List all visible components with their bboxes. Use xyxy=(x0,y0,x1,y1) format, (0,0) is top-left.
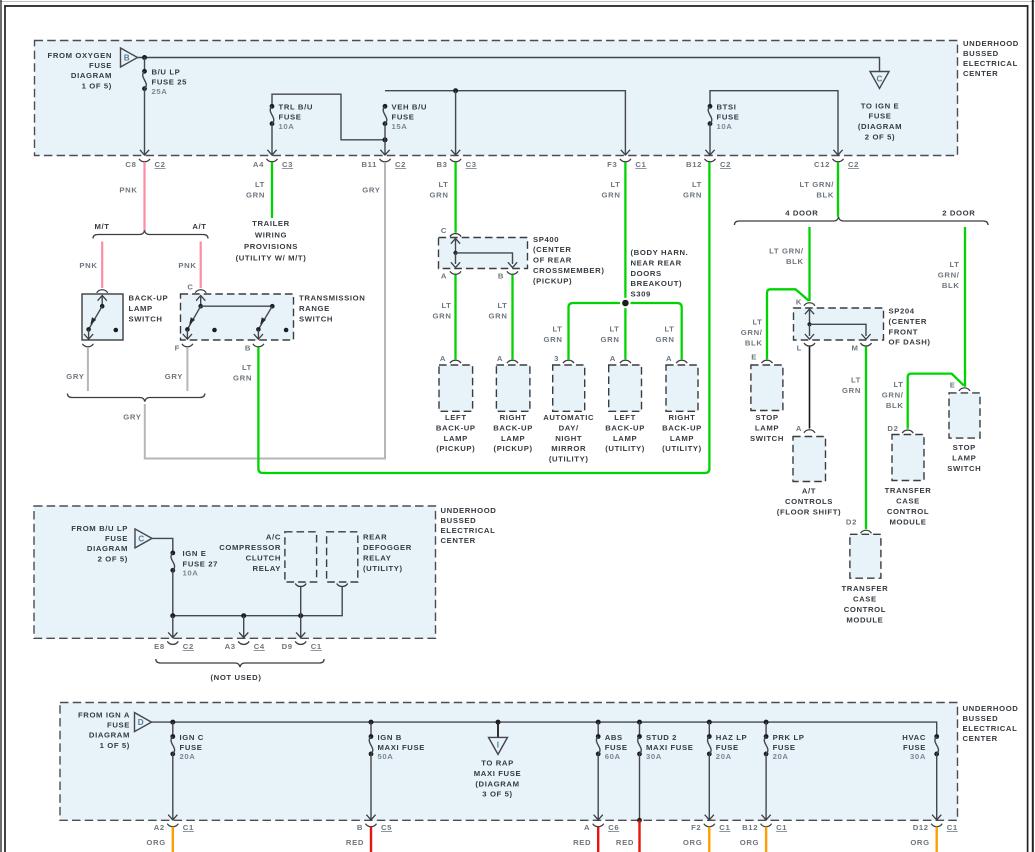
svg-text:FUSE: FUSE xyxy=(279,113,302,122)
svg-text:B11: B11 xyxy=(361,160,377,169)
svg-text:RIGHT: RIGHT xyxy=(500,413,527,422)
svg-text:RANGE: RANGE xyxy=(299,304,330,313)
back-up switch lower terminal xyxy=(88,329,90,339)
svg-text:NIGHT: NIGHT xyxy=(555,434,582,443)
svg-text:LAMP: LAMP xyxy=(670,434,694,443)
svg-text:FUSE 25: FUSE 25 xyxy=(152,78,188,87)
svg-text:ELECTRICAL: ELECTRICAL xyxy=(963,59,1018,68)
label LT GRN (SP400 B) xyxy=(489,301,508,321)
junction node VEH fuse output xyxy=(383,137,388,142)
terminal below a/c relay xyxy=(295,584,306,587)
svg-text:BUSSED: BUSSED xyxy=(963,714,999,723)
svg-text:MODULE: MODULE xyxy=(889,518,926,527)
wire LT GRN from A4 xyxy=(271,162,273,218)
wire bus to connector D9 xyxy=(300,616,302,638)
svg-text:BREAKOUT): BREAKOUT) xyxy=(631,279,683,288)
label TRANSFER CASE CONTROL MODULE (right) xyxy=(885,486,932,527)
svg-text:PROVISIONS: PROVISIONS xyxy=(244,242,298,251)
junction node D9 xyxy=(298,613,303,618)
connector C8/C2 arrow xyxy=(140,150,149,155)
svg-text:B: B xyxy=(357,823,363,832)
svg-text:FUSE: FUSE xyxy=(716,743,739,752)
svg-text:CONTROL: CONTROL xyxy=(887,507,929,516)
terminal A below SP400 xyxy=(450,271,461,274)
wire GRY from back-up switch xyxy=(87,347,89,391)
label UNDERHOOD BUSSED ELECTRICAL CENTER (box 3) xyxy=(963,704,1019,743)
connector A4/C3 arrow xyxy=(267,150,276,155)
svg-text:LT: LT xyxy=(610,180,620,189)
svg-text:(UTILITY): (UTILITY) xyxy=(662,444,702,453)
svg-text:(PICKUP): (PICKUP) xyxy=(494,444,533,453)
label UNDERHOOD BUSSED ELECTRICAL CENTER (box 2) xyxy=(441,506,497,545)
junction node at fuse 25 xyxy=(142,55,147,60)
svg-text:PRK LP: PRK LP xyxy=(773,733,805,742)
svg-text:B12: B12 xyxy=(742,823,758,832)
terminal E at left stop lamp switch xyxy=(762,360,773,363)
svg-text:OF DASH): OF DASH) xyxy=(889,338,931,347)
svg-text:TRANSMISSION: TRANSMISSION xyxy=(299,294,365,303)
svg-text:E: E xyxy=(751,353,757,362)
junction node bus3 #6 xyxy=(707,720,712,725)
bus wire box2 xyxy=(173,587,342,616)
svg-text:GRN: GRN xyxy=(246,191,265,200)
wire LT GRN from F3 through S309 xyxy=(624,162,626,359)
svg-text:C8: C8 xyxy=(125,160,136,169)
svg-text:2 DOOR: 2 DOOR xyxy=(942,209,975,218)
A/T controls (floor shift) box xyxy=(793,437,826,482)
svg-text:RELAY: RELAY xyxy=(253,564,281,573)
wire LT GRN/BLK 2-door branch xyxy=(964,227,966,387)
svg-text:C: C xyxy=(441,226,447,235)
svg-text:BUSSED: BUSSED xyxy=(963,49,999,58)
svg-text:BTSI: BTSI xyxy=(717,103,737,112)
svg-text:A: A xyxy=(441,272,447,281)
TRS contact node 1 xyxy=(212,328,217,333)
svg-text:LT: LT xyxy=(949,260,959,269)
svg-text:ELECTRICAL: ELECTRICAL xyxy=(441,526,496,535)
svg-text:F: F xyxy=(175,344,180,353)
wire LT GRN from B3 to SP400 xyxy=(454,162,456,233)
page border next-page xyxy=(1032,0,1034,852)
TRS lower terminal B xyxy=(257,329,259,339)
wire LT GRN SP400-A to left backup lamp xyxy=(454,275,456,360)
TRS blade 1 xyxy=(187,306,200,329)
label automatic day/night mirror (utility) xyxy=(543,413,594,464)
svg-text:TO RAP: TO RAP xyxy=(481,759,514,768)
fuse HAZ LP FUSE 20A xyxy=(707,734,712,756)
connector B11/C2 terminal xyxy=(380,159,391,162)
svg-text:MAXI FUSE: MAXI FUSE xyxy=(378,743,425,752)
label BACK-UP LAMP SWITCH xyxy=(129,294,169,324)
terminal L below SP204 xyxy=(804,343,815,346)
label (BODY HARN. NEAR REAR DOORS BREAKOUT) S309 xyxy=(631,248,689,299)
fuse TRL B/U FUSE 10A xyxy=(270,104,275,126)
wire RED from B xyxy=(370,827,372,852)
label LT GRN/BLK (right TCCM) xyxy=(882,380,904,410)
svg-text:COMPRESSOR: COMPRESSOR xyxy=(219,543,281,552)
svg-text:GRY: GRY xyxy=(66,372,84,381)
connector A4/C3 terminal xyxy=(267,159,278,162)
label PRK LP FUSE 20A xyxy=(773,733,805,761)
wire tap to connector B3 xyxy=(455,91,457,155)
label LT GRN/BLK (stop lamp feed) xyxy=(741,318,763,348)
svg-text:ABS: ABS xyxy=(605,733,623,742)
underhood bussed electrical center box 2 xyxy=(34,506,436,638)
underhood bussed electrical center box 1 xyxy=(35,41,958,156)
terminal 3 at automatic day/night mirror (utility) xyxy=(563,360,574,363)
svg-text:SWITCH: SWITCH xyxy=(299,315,333,324)
svg-text:2 OF 5): 2 OF 5) xyxy=(865,133,895,142)
back-up switch pivot node xyxy=(100,304,105,309)
wire LT GRN/BLK from C12 xyxy=(837,162,839,217)
label LT GRN (B3) xyxy=(430,180,449,200)
svg-text:BACK-UP: BACK-UP xyxy=(662,423,702,432)
svg-text:C: C xyxy=(138,535,144,544)
TRS lower terminal F xyxy=(186,329,188,339)
svg-text:GRN: GRN xyxy=(842,386,861,395)
svg-text:LT: LT xyxy=(752,318,762,327)
svg-text:(FLOOR SHIFT): (FLOOR SHIFT) xyxy=(777,508,841,517)
wire LT GRN/BLK 4-door branch to K xyxy=(808,227,810,301)
svg-text:LT: LT xyxy=(497,301,507,310)
svg-text:(PICKUP): (PICKUP) xyxy=(533,276,572,285)
svg-text:FUSE: FUSE xyxy=(869,112,892,121)
label TO IGN E FUSE (DIAGRAM 2 OF 5) xyxy=(858,101,902,141)
svg-text:2 OF 5): 2 OF 5) xyxy=(98,554,128,563)
svg-text:UNDERHOOD: UNDERHOOD xyxy=(963,704,1019,713)
brace NOT USED xyxy=(156,659,324,667)
svg-text:MODULE: MODULE xyxy=(846,616,883,625)
terminal C at transmission range switch xyxy=(195,290,206,293)
svg-text:BACK-UP: BACK-UP xyxy=(129,294,169,303)
connector C12/C2 terminal xyxy=(833,159,844,162)
svg-text:1 OF 5): 1 OF 5) xyxy=(82,81,112,90)
svg-text:(UTILITY): (UTILITY) xyxy=(549,455,589,464)
label right back-up lamp (utility) xyxy=(662,413,702,453)
svg-text:NEAR REAR: NEAR REAR xyxy=(631,258,682,267)
label LT GRN (left utility) xyxy=(601,325,620,345)
page border right xyxy=(1027,5,1029,852)
svg-text:LAMP: LAMP xyxy=(501,434,525,443)
svg-text:E: E xyxy=(950,381,956,390)
brace GRY merge xyxy=(67,394,204,402)
connector A3/C4 terminal xyxy=(238,641,249,644)
wire fuse IGN B MAXI FUSE 50A to output xyxy=(370,754,372,820)
label HVAC FUSE 30A xyxy=(902,733,926,761)
svg-text:GRY: GRY xyxy=(165,372,183,381)
svg-text:SWITCH: SWITCH xyxy=(947,464,981,473)
svg-text:TRANSFER: TRANSFER xyxy=(841,584,888,593)
svg-text:DIAGRAM: DIAGRAM xyxy=(89,731,130,740)
svg-text:LT: LT xyxy=(255,180,265,189)
svg-text:F2: F2 xyxy=(691,823,701,832)
off-page connector triangle C (box 2) xyxy=(135,529,152,548)
svg-text:L: L xyxy=(797,344,802,353)
svg-text:CROSSMEMBER): CROSSMEMBER) xyxy=(533,266,605,275)
svg-text:E8: E8 xyxy=(154,642,165,651)
fuse ABS FUSE 60A xyxy=(596,734,601,756)
splice node S309 xyxy=(620,298,631,309)
svg-text:A: A xyxy=(497,354,503,363)
SP204 branch wire xyxy=(810,324,867,336)
wire bus to fuse ABS FUSE 60A xyxy=(597,722,599,736)
label LT GRN (mirror) xyxy=(544,325,563,345)
component right back-up lamp (pickup) box xyxy=(496,365,530,411)
svg-text:A: A xyxy=(440,354,446,363)
svg-text:SWITCH: SWITCH xyxy=(750,434,784,443)
wire ORG from A2 xyxy=(172,827,174,852)
svg-text:IGN B: IGN B xyxy=(378,733,402,742)
wire LT GRN/BLK branch to right TCCM xyxy=(908,374,964,429)
label ABS FUSE 60A xyxy=(605,733,628,761)
svg-text:LT: LT xyxy=(893,380,903,389)
svg-text:GRN: GRN xyxy=(489,312,508,321)
left stop lamp switch box xyxy=(751,365,783,411)
label TRANSMISSION RANGE SWITCH xyxy=(299,294,365,324)
svg-text:F3: F3 xyxy=(607,160,617,169)
bottom transfer case control module box xyxy=(850,534,881,578)
fuse VEH B/U FUSE 15A xyxy=(383,104,388,126)
wire BTSI branch xyxy=(710,91,838,155)
svg-text:DAY/: DAY/ xyxy=(559,423,579,432)
component right back-up lamp (utility) box xyxy=(666,365,698,411)
svg-text:OF REAR: OF REAR xyxy=(533,256,572,265)
svg-text:BACK-UP: BACK-UP xyxy=(493,423,533,432)
terminal M below SP204 xyxy=(861,343,872,346)
wire bus to fuse IGN C FUSE 20A xyxy=(172,722,174,736)
terminal E at right stop lamp switch xyxy=(959,388,970,391)
svg-text:C1: C1 xyxy=(311,642,322,651)
junction node bus3 #5 xyxy=(637,720,642,725)
terminal F below TRS xyxy=(182,344,193,347)
SP400 branch wire xyxy=(456,253,513,264)
fuse BTSI FUSE 10A xyxy=(708,104,713,126)
svg-text:GRN/: GRN/ xyxy=(741,328,763,337)
TRS blade 1 lower node xyxy=(185,327,190,332)
svg-text:LT: LT xyxy=(438,180,448,189)
svg-text:B: B xyxy=(498,272,504,281)
page top hairline xyxy=(0,1,1035,3)
splice node STUD 2 output xyxy=(637,818,642,823)
svg-text:BLK: BLK xyxy=(786,257,804,266)
svg-text:3: 3 xyxy=(554,354,559,363)
svg-text:ORG: ORG xyxy=(740,838,759,847)
svg-text:A: A xyxy=(666,354,672,363)
svg-text:FRONT: FRONT xyxy=(889,327,919,336)
svg-text:50A: 50A xyxy=(378,752,394,761)
connector C8/C2 terminal xyxy=(139,159,150,162)
TRS blade 2 xyxy=(258,306,272,329)
terminal below rear defogger relay xyxy=(337,584,348,587)
svg-text:CONTROL: CONTROL xyxy=(844,605,886,614)
wire PNK from C8 xyxy=(143,162,145,231)
wire A/C relay to bus xyxy=(300,587,302,616)
svg-text:C1: C1 xyxy=(183,823,194,832)
svg-text:S309: S309 xyxy=(631,290,651,299)
wire LT GRN S309 branches xyxy=(569,303,682,359)
svg-text:TRANSFER: TRANSFER xyxy=(885,486,932,495)
label BTSI FUSE 10A xyxy=(717,103,740,131)
svg-text:(UTILITY): (UTILITY) xyxy=(605,444,645,453)
svg-text:GRY: GRY xyxy=(123,413,141,422)
connector E8/C2 terminal xyxy=(167,641,178,644)
fuse PRK LP FUSE 20A xyxy=(764,734,769,756)
svg-text:FUSE: FUSE xyxy=(392,113,415,122)
terminal A at left back-up lamp (utility) xyxy=(620,360,631,363)
svg-text:FROM OXYGEN: FROM OXYGEN xyxy=(48,51,112,60)
terminal below back-up switch xyxy=(82,344,93,347)
svg-text:TRAILER: TRAILER xyxy=(252,219,290,228)
label TRAILER WIRING PROVISIONS (UTILITY W/ M/T) xyxy=(236,219,307,263)
svg-text:I: I xyxy=(497,740,499,749)
svg-text:60A: 60A xyxy=(605,752,621,761)
connector C12/C2 arrow xyxy=(833,150,842,155)
svg-text:FUSE: FUSE xyxy=(717,113,740,122)
svg-text:FUSE 27: FUSE 27 xyxy=(183,559,219,568)
svg-text:RED: RED xyxy=(616,838,634,847)
fuse IGN B MAXI FUSE 50A xyxy=(369,734,374,756)
svg-text:1 OF 5): 1 OF 5) xyxy=(100,741,130,750)
wire bus to fuse HAZ LP FUSE 20A xyxy=(708,722,710,736)
svg-text:(UTILITY): (UTILITY) xyxy=(363,564,403,573)
label LT GRN (SP400 A) xyxy=(433,301,452,321)
wire LT GRN SP400-B to right backup lamp xyxy=(511,275,513,360)
connector A2/C1 arrow xyxy=(168,815,177,820)
svg-text:REAR: REAR xyxy=(363,533,387,542)
svg-text:GRN: GRN xyxy=(544,335,563,344)
component automatic day/night mirror (utility) box xyxy=(553,365,585,411)
splice SP204 box xyxy=(794,308,884,340)
svg-text:CENTER: CENTER xyxy=(963,734,998,743)
svg-text:D12: D12 xyxy=(913,823,929,832)
svg-text:(BODY HARN.: (BODY HARN. xyxy=(631,248,689,257)
page border outer-left xyxy=(0,0,2,852)
svg-text:DOORS: DOORS xyxy=(631,269,662,278)
svg-text:GRN/: GRN/ xyxy=(882,391,904,400)
wire bus2 from VEH fuse top xyxy=(385,91,625,155)
terminal C at SP400 xyxy=(450,234,461,237)
svg-text:LT: LT xyxy=(242,363,252,372)
bus wire box3 xyxy=(152,722,937,736)
svg-text:RELAY: RELAY xyxy=(363,554,391,563)
terminal A at right back-up lamp (utility) xyxy=(676,360,687,363)
svg-text:CASE: CASE xyxy=(896,497,920,506)
label A/T CONTROLS (FLOOR SHIFT) xyxy=(777,487,841,517)
svg-text:GRN: GRN xyxy=(602,191,621,200)
connector A2/C1 terminal xyxy=(167,824,178,827)
SP400 splice node xyxy=(453,251,457,255)
back-up switch upper terminal xyxy=(98,296,107,301)
label IGN C FUSE 20A xyxy=(180,733,204,761)
off-page connector triangle C to IGN E fuse xyxy=(870,72,889,89)
connector A3/C4 arrow xyxy=(239,632,248,637)
wire bus to fuse STUD 2 MAXI FUSE 30A xyxy=(639,722,641,736)
svg-text:WIRING: WIRING xyxy=(255,231,287,240)
svg-text:(PICKUP): (PICKUP) xyxy=(436,444,475,453)
svg-text:TRL B/U: TRL B/U xyxy=(279,103,314,112)
svg-text:A3: A3 xyxy=(225,642,236,651)
connector B/C5 terminal xyxy=(366,824,377,827)
svg-text:UNDERHOOD: UNDERHOOD xyxy=(441,506,497,515)
svg-text:BLK: BLK xyxy=(942,281,960,290)
back-up switch blade lower node xyxy=(86,327,91,332)
SP204 output M arrow xyxy=(861,334,870,339)
svg-text:FUSE: FUSE xyxy=(180,743,203,752)
svg-text:LT: LT xyxy=(441,301,451,310)
svg-text:M/T: M/T xyxy=(94,222,109,231)
svg-text:4 DOOR: 4 DOOR xyxy=(785,209,818,218)
svg-text:LT: LT xyxy=(851,376,861,385)
svg-text:C: C xyxy=(876,75,882,84)
component left back-up lamp (utility) box xyxy=(609,365,642,411)
junction node B3 tap xyxy=(453,88,458,93)
wire bus to B/U LP fuse xyxy=(144,58,146,72)
svg-text:LAMP: LAMP xyxy=(755,423,779,432)
svg-text:PNK: PNK xyxy=(119,186,137,195)
svg-text:TO IGN E: TO IGN E xyxy=(861,101,900,110)
svg-text:VEH B/U: VEH B/U xyxy=(392,103,428,112)
a/c compressor clutch relay box xyxy=(285,532,317,582)
wire fuse PRK LP FUSE 20A to output xyxy=(765,754,767,820)
TRS upper terminal C xyxy=(196,296,205,301)
label SP400 (CENTER OF REAR CROSSMEMBER) (PICKUP) xyxy=(533,235,605,286)
svg-text:HAZ LP: HAZ LP xyxy=(716,733,747,742)
label IGN E FUSE 27 10A xyxy=(183,549,219,577)
SP400 input arrow xyxy=(451,239,460,244)
svg-text:A/T: A/T xyxy=(192,222,206,231)
connector B12/C2 arrow xyxy=(705,150,714,155)
wire bus to fuse PRK LP FUSE 20A xyxy=(765,722,767,736)
svg-text:(CENTER: (CENTER xyxy=(889,317,928,326)
svg-text:STUD 2: STUD 2 xyxy=(646,733,677,742)
svg-text:D2: D2 xyxy=(846,518,857,527)
wire fuse HVAC FUSE 30A to output xyxy=(936,754,938,820)
svg-text:20A: 20A xyxy=(180,752,196,761)
fuse IGN C FUSE 20A xyxy=(170,734,175,756)
svg-text:LT: LT xyxy=(664,325,674,334)
wire fuse STUD 2 MAXI FUSE 30A to output xyxy=(639,754,641,820)
svg-text:LAMP: LAMP xyxy=(444,434,468,443)
connector F2/C1 arrow xyxy=(705,815,714,820)
junction node bus3 #2 xyxy=(369,720,374,725)
svg-text:D9: D9 xyxy=(282,642,293,651)
connector B3/C3 terminal xyxy=(450,159,461,162)
fuse HVAC FUSE 30A xyxy=(934,734,939,756)
off-page connector triangle B xyxy=(121,48,138,67)
brace M/T - A/T split xyxy=(93,230,208,238)
svg-text:B: B xyxy=(124,54,130,63)
svg-text:SP400: SP400 xyxy=(533,235,559,244)
label SP204 (CENTER FRONT OF DASH) xyxy=(889,307,931,347)
svg-text:B3: B3 xyxy=(437,160,448,169)
wire fuse ABS FUSE 60A to output xyxy=(597,754,599,820)
page border left xyxy=(4,5,6,852)
terminal A at A/T controls xyxy=(804,430,815,433)
TRS blade 2 lower node xyxy=(256,327,261,332)
svg-text:FUSE: FUSE xyxy=(105,534,128,543)
svg-text:BLK: BLK xyxy=(816,191,834,200)
wire bus to connector E8 xyxy=(172,616,174,638)
wire LT GRN TRS B to connector B12 xyxy=(258,162,709,473)
label left back-up lamp (pickup) xyxy=(436,413,476,453)
terminal B below SP400 xyxy=(507,271,518,274)
svg-text:C2: C2 xyxy=(155,160,166,169)
junction node bus3 #3 xyxy=(496,720,501,725)
SP400 output B arrow xyxy=(508,262,517,267)
svg-text:A: A xyxy=(796,424,802,433)
off-page connector triangle I to RAP maxi fuse xyxy=(489,737,508,754)
svg-text:RIGHT: RIGHT xyxy=(668,413,695,422)
